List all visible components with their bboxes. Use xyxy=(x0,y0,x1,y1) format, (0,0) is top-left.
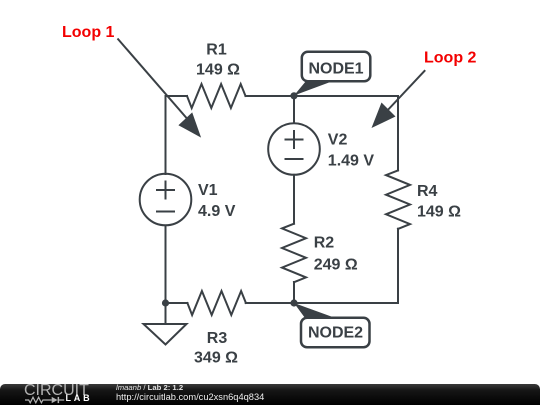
wire R2 to NODE2 xyxy=(293,282,295,303)
junction dot node A (NODE1) xyxy=(290,92,297,99)
svg-text:V1: V1 xyxy=(198,182,218,199)
label R2 value xyxy=(314,234,358,273)
footer bar xyxy=(0,384,540,405)
svg-text:V2: V2 xyxy=(328,131,348,148)
wire bottom-left node to R3 xyxy=(166,302,188,304)
ground xyxy=(144,303,187,345)
svg-text:R4: R4 xyxy=(417,183,438,200)
svg-text:1.49 V: 1.49 V xyxy=(328,152,375,169)
wire bottom-right corner to NODE2 xyxy=(294,302,398,304)
svg-text:Loop 2: Loop 2 xyxy=(424,50,477,67)
svg-text:NODE2: NODE2 xyxy=(308,324,363,341)
node label NODE1 xyxy=(294,52,370,96)
label R4 value xyxy=(417,183,461,221)
svg-text:R1: R1 xyxy=(206,42,227,59)
label V2 value xyxy=(328,131,375,169)
voltage source V2 xyxy=(268,123,320,175)
wire V1 to bottom-left node xyxy=(165,226,167,304)
CircuitLab logo LAB text xyxy=(66,393,93,403)
wire left side top (corner to V1) xyxy=(165,96,167,174)
wire right side top (corner to R4) xyxy=(397,96,399,170)
svg-text:Loop 1: Loop 1 xyxy=(62,24,115,41)
svg-text:R2: R2 xyxy=(314,234,335,251)
resistor R4 xyxy=(386,170,410,229)
junction dot node B (NODE2) xyxy=(290,299,297,306)
annotation Loop 2 arrow xyxy=(372,70,426,128)
svg-text:NODE1: NODE1 xyxy=(308,61,363,78)
junction dot bottom-left ground node xyxy=(162,299,169,306)
label V1 value xyxy=(198,182,236,220)
annotation Loop 2 text xyxy=(424,50,477,67)
wire NODE1 to top-right corner xyxy=(294,95,398,97)
svg-text:149 Ω: 149 Ω xyxy=(417,204,461,221)
wire R3 to NODE2 xyxy=(246,302,294,304)
svg-text:149 Ω: 149 Ω xyxy=(196,62,240,79)
wire R4 to bottom-right corner xyxy=(397,229,399,303)
CircuitLab logo wordmark xyxy=(24,382,89,400)
wire V2 to R2 xyxy=(293,175,295,224)
footer url text xyxy=(116,392,264,402)
resistor R2 xyxy=(282,224,306,282)
svg-text:249 Ω: 249 Ω xyxy=(314,257,358,274)
label R1 value xyxy=(196,42,240,79)
wire NODE1 to V2 xyxy=(293,96,295,123)
wire R1 to node NODE1 xyxy=(246,95,295,97)
resistor R3 xyxy=(187,291,246,315)
voltage source V1 xyxy=(140,174,192,226)
resistor R1 xyxy=(187,84,246,108)
node label NODE2 xyxy=(294,303,370,347)
svg-text:4.9 V: 4.9 V xyxy=(198,203,236,220)
annotation Loop 1 text xyxy=(62,24,115,41)
footer title text xyxy=(116,383,183,392)
label R3 value xyxy=(194,330,238,367)
wire top-left corner to R1 xyxy=(166,95,188,97)
svg-text:R3: R3 xyxy=(207,330,228,347)
svg-text:349 Ω: 349 Ω xyxy=(194,350,238,367)
CircuitLab logo schematic glyph (resistor + diode) xyxy=(25,396,66,405)
annotation Loop 1 arrow xyxy=(118,39,202,138)
